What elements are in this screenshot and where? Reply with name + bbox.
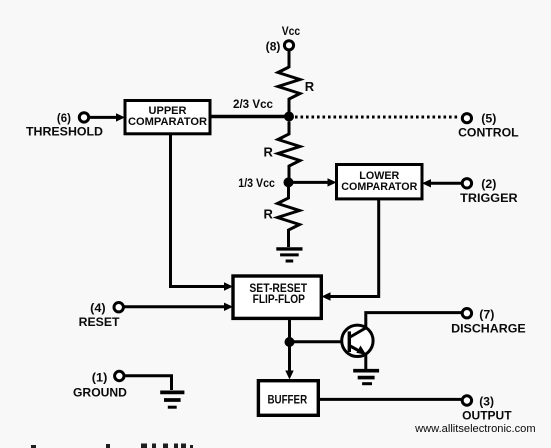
wire threshold to upper comparator [89, 113, 125, 121]
node 1/3 Vcc [238, 176, 293, 190]
wire trigger to lower comparator [422, 179, 462, 187]
wire base of Q1 [294, 340, 348, 343]
wire upper comparator output to node [210, 115, 287, 119]
svg-text:OUTPUT: OUTPUT [462, 408, 512, 422]
wire upper comparator to flip-flop [171, 134, 234, 291]
svg-text:R: R [264, 145, 274, 160]
resistor R1 [278, 67, 315, 112]
terminal pin 3 OUTPUT [462, 395, 512, 423]
wire lower comparator to flip-flop [322, 199, 379, 301]
terminal pin 8 Vcc [266, 24, 301, 54]
ground pin 1 [160, 392, 184, 407]
svg-text:LOWER: LOWER [359, 170, 399, 182]
comparator U1 upper [125, 101, 210, 134]
svg-text:R: R [305, 79, 315, 94]
svg-text:UPPER: UPPER [149, 105, 187, 117]
svg-text:1/3 Vcc: 1/3 Vcc [238, 176, 275, 190]
resistor R2 [264, 122, 301, 179]
wire dotted control line [295, 116, 458, 119]
svg-text:FLIP-FLOP: FLIP-FLOP [253, 294, 306, 306]
wire pin 1 to ground symbol [124, 376, 171, 390]
terminal pin 1 GROUND [73, 371, 127, 400]
svg-text:(2): (2) [481, 177, 496, 191]
svg-text:R: R [264, 207, 274, 222]
svg-text:(3): (3) [479, 395, 494, 409]
buffer U4 [258, 381, 318, 416]
wire buffer to output [318, 398, 461, 401]
svg-text:(8): (8) [266, 39, 281, 53]
svg-text:COMPARATOR: COMPARATOR [341, 181, 417, 193]
wire node 1/3 Vcc to lower comparator [293, 178, 337, 186]
ground divider [276, 249, 302, 261]
wire collector to discharge [366, 313, 462, 329]
terminal pin 6 THRESHOLD [26, 111, 103, 139]
svg-text:(5): (5) [481, 112, 496, 126]
resistor R3 [264, 187, 300, 247]
svg-text:BUFFER: BUFFER [267, 394, 307, 406]
svg-text:THRESHOLD: THRESHOLD [26, 125, 103, 139]
svg-text:DISCHARGE: DISCHARGE [451, 321, 526, 335]
terminal pin 7 DISCHARGE [451, 307, 526, 335]
terminal pin 4 RESET [79, 301, 124, 329]
wire reset to flip-flop [124, 303, 233, 311]
svg-text:www.allitselectronic.com: www.allitselectronic.com [414, 423, 536, 435]
svg-text:TRIGGER: TRIGGER [460, 191, 518, 205]
wire junction to buffer [285, 346, 293, 380]
transistor Q1 [342, 325, 373, 356]
comparator U2 lower [337, 165, 423, 199]
svg-text:(4): (4) [90, 301, 106, 315]
svg-text:(6): (6) [57, 111, 71, 125]
node 2/3 Vcc [233, 97, 294, 122]
svg-text:CONTROL: CONTROL [458, 125, 518, 139]
wire flip-flop output down [288, 318, 291, 338]
caption fragment clipped at bottom edge [31, 444, 193, 448]
flip-flop U3 set-reset [233, 276, 321, 318]
node Q junction [285, 337, 295, 347]
svg-text:RESET: RESET [79, 315, 120, 329]
svg-text:(7): (7) [479, 307, 494, 321]
wire emitter to ground [364, 355, 367, 369]
terminal pin 5 CONTROL [458, 112, 518, 140]
svg-text:Vcc: Vcc [282, 24, 301, 38]
svg-text:GROUND: GROUND [73, 385, 127, 399]
wire Vcc to R1 [288, 51, 291, 69]
ground emitter [353, 371, 379, 384]
svg-text:COMPARATOR: COMPARATOR [128, 116, 207, 128]
terminal pin 2 TRIGGER [460, 177, 518, 205]
svg-text:(1): (1) [92, 371, 108, 385]
svg-text:2/3 Vcc: 2/3 Vcc [233, 97, 273, 111]
